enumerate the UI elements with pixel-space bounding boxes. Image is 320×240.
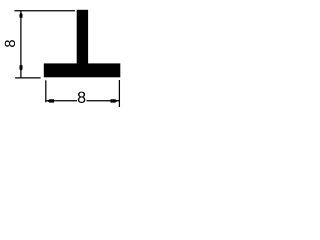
down arrowhead <box>20 65 23 71</box>
left arrowhead <box>47 99 54 102</box>
T-profile dimension drawing <box>0 0 128 115</box>
right extension line of horizontal dimension <box>118 80 120 107</box>
horizontal dimension line right segment <box>87 100 120 102</box>
right arrowhead <box>111 99 118 102</box>
left extension line of horizontal dimension <box>45 80 47 102</box>
up arrowhead <box>20 12 23 18</box>
vertical dimension line <box>20 11 22 78</box>
bottom extension line of vertical dimension <box>15 77 40 79</box>
background <box>0 0 128 115</box>
label 8 (horizontal dimension) <box>78 92 86 103</box>
top extension line <box>14 10 75 12</box>
horizontal dimension line left segment <box>46 100 77 102</box>
T-profile stem (vertical bar) <box>77 10 88 64</box>
label 8 (vertical dimension, rotated) <box>5 40 15 47</box>
T-profile flange (horizontal bar) <box>44 63 121 77</box>
